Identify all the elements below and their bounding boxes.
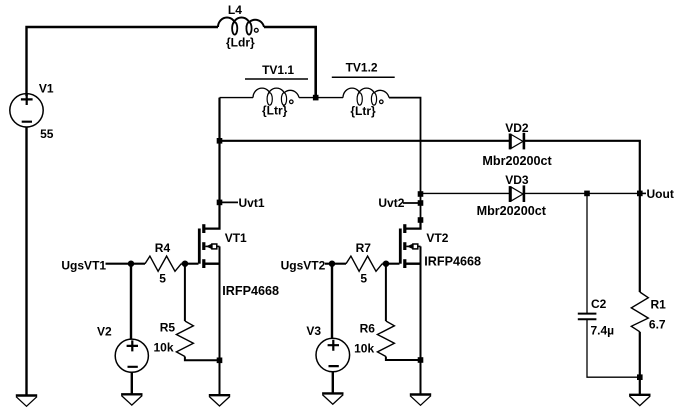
wire V3 bottom lead xyxy=(332,372,334,393)
transformer TV1.1 core bar xyxy=(245,78,308,80)
svg-text:VT2: VT2 xyxy=(426,231,448,245)
junction R4 / R5 / gate xyxy=(182,261,188,267)
resistor R4 xyxy=(145,256,181,271)
wire TV1.2 left lead xyxy=(316,97,343,99)
transformer TV1.2 core bar xyxy=(332,76,395,78)
svg-text:R7: R7 xyxy=(356,241,372,255)
source V3 xyxy=(316,338,350,372)
svg-text:Mbr20200ct: Mbr20200ct xyxy=(477,204,547,218)
wire R5 bottom to VT1 source xyxy=(185,357,220,361)
wire VT2 source down xyxy=(420,246,422,394)
diode VD3 xyxy=(510,185,524,202)
junction VD3 at VT2 drain xyxy=(418,191,424,197)
svg-text:UgsVT1: UgsVT1 xyxy=(61,258,106,272)
winding TV1.2 xyxy=(343,88,389,105)
wire V1 to ground xyxy=(25,127,27,395)
svg-text:{Ltr}: {Ltr} xyxy=(262,103,288,117)
svg-text:L4: L4 xyxy=(228,3,242,17)
svg-text:R4: R4 xyxy=(155,241,171,255)
svg-text:6.7: 6.7 xyxy=(649,318,666,332)
wire V3 top lead xyxy=(331,264,333,339)
wire C2 top lead xyxy=(586,193,588,313)
svg-text:VD3: VD3 xyxy=(505,173,529,187)
wire V2 bottom lead xyxy=(131,372,133,394)
svg-text:TV1.2: TV1.2 xyxy=(346,61,378,75)
wire TV1.1 left lead xyxy=(220,97,254,99)
svg-text:10k: 10k xyxy=(154,341,174,355)
node Uout xyxy=(640,187,674,201)
svg-text:7.4µ: 7.4µ xyxy=(591,324,615,338)
wire R6 top lead xyxy=(385,264,387,321)
svg-text:C2: C2 xyxy=(591,297,607,311)
junction C2 tap xyxy=(584,191,590,197)
transistor VT2 xyxy=(400,220,420,268)
resistor R7 xyxy=(346,256,382,271)
svg-text:IRFP4668: IRFP4668 xyxy=(424,255,481,269)
junction VT1 source / R5 xyxy=(217,358,223,364)
wire VD2 row anode side xyxy=(220,140,510,142)
svg-text:5: 5 xyxy=(159,272,166,286)
junction UgsVT1 / V2 xyxy=(128,261,134,267)
ground under R1 xyxy=(629,395,650,406)
svg-text:Uvt2: Uvt2 xyxy=(378,196,404,210)
node Uvt2 xyxy=(378,196,423,210)
source V2 xyxy=(115,339,148,372)
winding TV1.1 xyxy=(253,88,299,105)
wire VD2 cathode to right corner down xyxy=(525,141,640,194)
capacitor C2 xyxy=(578,314,597,320)
diode VD2 xyxy=(510,133,524,150)
wire VT1 source down xyxy=(219,246,221,394)
svg-text:55: 55 xyxy=(40,127,54,141)
svg-text:R1: R1 xyxy=(651,298,667,312)
svg-text:V1: V1 xyxy=(39,82,54,96)
wire R6 bottom to VT2 source xyxy=(386,357,421,361)
junction VD2 row left xyxy=(217,138,223,144)
svg-text:TV1.1: TV1.1 xyxy=(262,63,294,77)
svg-text:5: 5 xyxy=(360,272,367,286)
junction Uout xyxy=(637,191,643,197)
wire top left from V1 to L4 xyxy=(27,27,219,96)
wire R5 top lead xyxy=(184,264,186,321)
junction center tap xyxy=(313,95,319,101)
svg-text:VD2: VD2 xyxy=(505,121,529,135)
wire R1 bottom lead xyxy=(639,332,641,395)
svg-text:IRFP4668: IRFP4668 xyxy=(222,284,279,298)
svg-text:10k: 10k xyxy=(354,342,374,356)
svg-text:R5: R5 xyxy=(160,321,176,335)
ground under VT2 xyxy=(410,395,431,406)
ground under V2 xyxy=(121,394,142,405)
wire V2 top lead xyxy=(130,264,132,339)
wire C2 bottom lead xyxy=(587,319,640,377)
ground under VT1 xyxy=(209,395,230,406)
ground under V3 xyxy=(322,393,343,404)
wire left vertical to VT1 drain xyxy=(204,98,220,229)
node Uvt1 xyxy=(217,196,265,210)
junction VT2 source / R6 xyxy=(418,357,424,363)
node UgsVT2 xyxy=(281,258,346,272)
transistor VT1 xyxy=(199,224,219,268)
wire R7 to gate xyxy=(382,263,399,265)
wire VD3 row from VT2 drain node xyxy=(421,192,510,194)
svg-text:V3: V3 xyxy=(306,324,321,338)
wire VD3 cathode to Uout xyxy=(525,192,640,194)
inductor L4 xyxy=(218,18,264,35)
wire L4 right down to transformer center tap xyxy=(264,27,316,98)
svg-text:V2: V2 xyxy=(97,324,112,338)
junction C2 / R1 bottom xyxy=(637,374,643,380)
svg-text:VT1: VT1 xyxy=(225,231,247,245)
source V1 xyxy=(10,94,43,127)
svg-text:Uout: Uout xyxy=(647,187,674,201)
svg-text:Mbr20200ct: Mbr20200ct xyxy=(482,154,552,168)
junction VT2 drain pin xyxy=(418,217,424,223)
node UgsVT1 xyxy=(61,258,145,272)
wire R4 to gate xyxy=(181,263,198,265)
junction R7 / R6 / gate xyxy=(383,261,389,267)
svg-text:{Ldr}: {Ldr} xyxy=(226,35,255,49)
svg-text:{Ltr}: {Ltr} xyxy=(350,104,376,118)
resistor R1 xyxy=(631,292,648,332)
junction UgsVT2 / V3 xyxy=(329,261,335,267)
resistor R5 xyxy=(176,321,193,357)
ground under V1 xyxy=(16,396,37,407)
wire TV1.1 right lead xyxy=(299,97,316,99)
svg-text:R6: R6 xyxy=(360,322,376,336)
wire TV1.2 right lead down to VT2 drain xyxy=(389,98,421,220)
svg-text:UgsVT2: UgsVT2 xyxy=(281,258,326,272)
svg-text:Uvt1: Uvt1 xyxy=(239,196,265,210)
wire R1 top lead xyxy=(639,193,641,292)
resistor R6 xyxy=(377,321,394,357)
